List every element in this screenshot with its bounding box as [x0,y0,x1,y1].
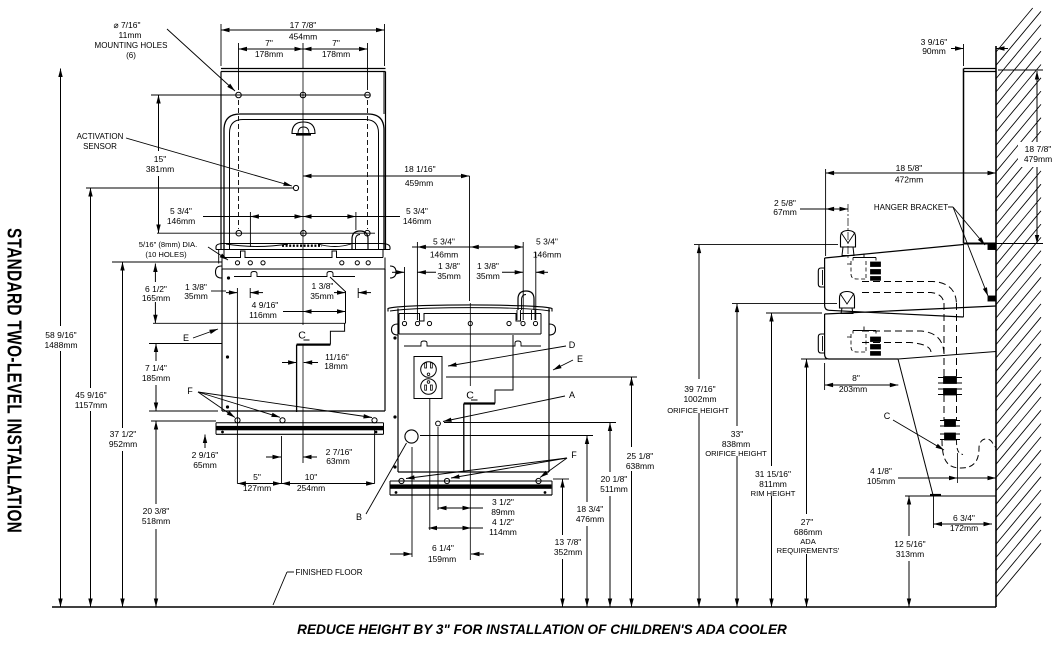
outlet receptacle bottom [421,379,437,395]
svg-text:127mm: 127mm [243,483,271,493]
deck scallop left [226,244,288,247]
dim 33 [736,304,738,426]
svg-text:476mm: 476mm [576,514,604,524]
wall hatching [996,8,1041,597]
svg-text:518mm: 518mm [142,516,170,526]
svg-text:89mm: 89mm [491,507,515,517]
svg-text:63mm: 63mm [326,456,350,466]
svg-text:33": 33" [731,429,743,439]
unit1 centerline [302,72,304,325]
ext 37 1/2 [112,261,222,263]
side panel top double line [964,68,997,70]
dim 20 1/8 [609,423,611,473]
wall line [995,46,997,607]
dim 18 1/16 [303,175,470,177]
svg-text:F: F [187,386,193,396]
svg-text:178mm: 178mm [255,49,283,59]
unit1 base plate [216,422,384,424]
svg-text:2 9/16": 2 9/16" [192,450,219,460]
svg-text:146mm: 146mm [533,250,561,260]
dim 18 7/8 [1018,142,1058,167]
dim 58 9/16 [60,69,62,327]
svg-text:254mm: 254mm [297,483,325,493]
unit1 internal step panel line [153,322,346,324]
side panel bottom [964,243,997,245]
dim 7 left [239,48,304,50]
svg-text:3 1/2": 3 1/2" [492,497,514,507]
pipe union fitting 1 [938,377,962,379]
unit1 back panel top edge (double line) [221,68,386,70]
dim 5 3/4 right [303,216,356,218]
svg-text:REQUIREMENTS': REQUIREMENTS' [777,546,840,555]
svg-text:1 3/8": 1 3/8" [477,261,499,271]
mounting holes row2 line [157,232,375,234]
side panel front edge [963,69,965,244]
svg-text:5/16" (8mm) DIA.: 5/16" (8mm) DIA. [139,240,197,249]
unit1 internal step [330,291,345,345]
svg-text:ACTIVATION: ACTIVATION [77,132,124,141]
lower bubbler side [840,292,855,309]
dim 27 [806,359,808,514]
svg-text:10": 10" [305,472,317,482]
dim 20 3/8 [155,421,157,504]
unit1 apron holes [235,261,239,265]
dashed stud line right [367,100,369,229]
lower cooler underside to wall [898,352,996,360]
unit2 left side knob [392,324,399,335]
unit1 louver line with hooks [234,272,355,277]
dim 5 [237,483,281,485]
svg-text:A: A [569,390,575,400]
finished floor line [52,606,996,608]
dim 7 right [303,48,368,50]
svg-text:5 3/4": 5 3/4" [536,237,558,247]
dim 17 7/8 [221,29,385,31]
dim 6 1/4 [390,553,412,555]
mounting hole 6 [365,230,371,236]
upper cooler top edge [825,245,964,259]
svg-text:6 1/4": 6 1/4" [432,543,454,553]
svg-text:511mm: 511mm [600,484,628,494]
dim 13 7/8 [562,479,564,535]
unit2 bubbler guard dome [518,291,534,310]
svg-text:18 5/8": 18 5/8" [896,163,923,173]
unit2 centerline [469,303,471,386]
svg-text:39 7/16": 39 7/16" [684,384,715,394]
dim 2 7/16 [266,456,281,458]
dim 1 3/8 left unit1 [226,292,237,294]
svg-text:4 9/16": 4 9/16" [252,300,279,310]
upper bubbler centerline [847,204,849,258]
dim 2 5/8 [800,208,826,210]
unit2 basin deck [388,305,552,312]
dim 3 9/16 [951,48,964,50]
dim 37 1/2 [122,262,124,428]
lower cooler front face [825,314,829,359]
svg-text:5 3/4": 5 3/4" [406,206,428,216]
svg-text:D: D [569,340,576,350]
svg-text:27": 27" [801,517,813,527]
svg-text:146mm: 146mm [430,250,458,260]
svg-text:5 3/4": 5 3/4" [170,206,192,216]
svg-text:20 1/8": 20 1/8" [601,474,628,484]
svg-text:MOUNTING HOLES: MOUNTING HOLES [95,41,168,50]
dim 5 3/4 left [203,216,250,218]
diagonal reference line [898,359,933,495]
svg-text:45 9/16": 45 9/16" [75,390,106,400]
svg-text:35mm: 35mm [476,271,500,281]
dim 25 1/8 [631,377,633,447]
svg-text:203mm: 203mm [839,384,867,394]
dim 5 3/4 unit2 left [412,246,417,248]
dim 39 7/16 [698,245,700,379]
P-trap dashed [942,439,996,468]
dashed stud line left [238,100,240,229]
svg-text:37 1/2": 37 1/2" [110,429,137,439]
unit2 louver line with hooks [404,341,541,346]
svg-text:65mm: 65mm [193,460,217,470]
svg-text:⌀ 7/16": ⌀ 7/16" [113,20,140,30]
unit2 guard legs [517,310,535,320]
trap centerline ext [957,453,959,483]
dim 10 [282,483,375,485]
dim 4 9/16 [283,311,303,313]
svg-text:1157mm: 1157mm [75,400,107,410]
pipe union fitting 2 [940,420,960,422]
svg-text:459mm: 459mm [405,178,433,188]
unit2 base plate [390,480,552,482]
svg-text:E: E [183,333,189,343]
svg-text:952mm: 952mm [109,439,137,449]
svg-text:RIM HEIGHT: RIM HEIGHT [751,489,796,498]
drain hole B [405,430,418,443]
electrical outlet box [414,357,442,399]
svg-text:17 7/8": 17 7/8" [290,20,317,30]
sensor extension line [86,187,293,189]
dim 12 5/16 [908,496,910,536]
svg-text:STANDARD TWO-LEVEL INSTALLATIO: STANDARD TWO-LEVEL INSTALLATION [3,228,25,533]
mounting hole 2 [300,92,306,98]
deck grill strip [282,244,322,246]
dim 8 [825,384,899,386]
svg-text:(10 HOLES): (10 HOLES) [145,250,187,259]
unit1 back panel sides [220,72,222,250]
svg-text:12 5/16": 12 5/16" [894,539,925,549]
unit1 right side knob [390,266,396,278]
hole A [436,421,441,426]
dim 1 3/8 mid unit1 [334,292,346,294]
dim 18 5/8 [826,172,996,174]
svg-text:58 9/16": 58 9/16" [45,330,76,340]
svg-text:ORIFICE HEIGHT: ORIFICE HEIGHT [705,449,767,458]
svg-text:6 3/4": 6 3/4" [953,513,975,523]
svg-text:172mm: 172mm [950,523,978,533]
lower cooler internals [853,327,876,334]
mounting hole 4 [236,230,242,236]
dim 6 3/4 [934,523,993,525]
svg-text:7 1/4": 7 1/4" [145,363,167,373]
unit1 bubbler guard dome [352,231,368,250]
svg-text:116mm: 116mm [249,310,277,320]
svg-text:C: C [884,411,891,421]
unit1 apron band2 [221,258,223,270]
svg-text:381mm: 381mm [146,164,174,174]
svg-text:HANGER BRACKET: HANGER BRACKET [874,203,948,212]
svg-text:67mm: 67mm [773,207,797,217]
svg-text:35mm: 35mm [184,291,208,301]
svg-text:454mm: 454mm [289,32,317,42]
svg-text:35mm: 35mm [437,271,461,281]
upper supply pipes dashed [862,282,957,306]
svg-text:7": 7" [265,38,273,48]
svg-text:ADA: ADA [800,537,817,546]
svg-text:F: F [571,450,577,460]
unit2 apron holes [402,321,406,325]
vertical pipe run dashed [956,303,958,376]
lower cooler top edge [825,306,996,314]
svg-text:90mm: 90mm [922,46,946,56]
svg-text:686mm: 686mm [794,527,822,537]
unit2 internal step [495,335,513,404]
mounting holes row1 line [151,94,370,96]
dim 1 3/8 unit2 right [502,271,523,273]
svg-text:11mm: 11mm [119,30,142,40]
svg-text:FINISHED FLOOR: FINISHED FLOOR [295,568,362,577]
lower supply pipes dashed [862,331,944,355]
unit1 rivet dots [227,277,229,279]
unit2 cabinet sides [397,309,399,473]
activation sensor leader [126,138,292,186]
hanger bracket lower detail [988,296,996,301]
svg-text:838mm: 838mm [722,439,750,449]
unit2 rivet dots [394,337,396,339]
outlet receptacle top [421,362,437,378]
dim 31 15/16 [771,313,773,466]
svg-text:B: B [356,512,362,522]
svg-text:105mm: 105mm [867,476,895,486]
lower cooler bottom edge [829,358,898,360]
svg-text:146mm: 146mm [403,216,431,226]
unit1 left side knob [216,266,222,278]
mounting holes leader [167,29,235,91]
mounting hole 1 [236,92,242,98]
svg-text:ORIFICE HEIGHT: ORIFICE HEIGHT [667,406,729,415]
svg-text:4 1/8": 4 1/8" [870,466,892,476]
svg-text:165mm: 165mm [142,293,170,303]
svg-text:8": 8" [852,373,860,383]
svg-text:811mm: 811mm [759,479,787,489]
upper bubbler side [841,231,856,248]
mounting hole 3 [365,92,371,98]
svg-text:20 3/8": 20 3/8" [143,506,170,516]
svg-text:E: E [577,354,583,364]
dim 4 1/2 [429,527,472,529]
svg-text:159mm: 159mm [428,554,456,564]
unit2 feet bolts [399,478,404,483]
svg-text:178mm: 178mm [322,49,350,59]
svg-text:18 1/16": 18 1/16" [404,164,435,174]
unit1 hood inner frame [230,120,379,250]
svg-text:18mm: 18mm [324,361,348,371]
dim 4 1/8 [898,477,996,479]
svg-text:18 3/4": 18 3/4" [577,504,604,514]
mounting hole 5 [301,230,307,236]
deck scallop right [318,244,351,247]
svg-text:(6): (6) [126,51,136,60]
unit1 basin deck [216,244,390,250]
dim 7 1/4 [155,344,157,362]
svg-text:5 3/4": 5 3/4" [433,237,455,247]
svg-text:25 1/8": 25 1/8" [627,451,654,461]
unit2 right side knob [549,324,556,335]
dim 3 1/2 [438,507,471,509]
dim 15 [158,95,160,151]
svg-text:479mm: 479mm [1024,154,1052,164]
unit1 bottom rail [222,410,385,412]
svg-text:1002mm: 1002mm [683,394,716,404]
dim 2 9/16 [204,435,206,449]
upper cooler internals [853,254,876,261]
dim 18 3/4 [586,436,588,503]
unit2 bottom rail [398,471,549,473]
dim 45 9/16 [90,188,92,388]
dim 6 1/2 [154,264,156,283]
upper cooler bottom edge [829,310,964,317]
svg-text:7": 7" [332,38,340,48]
lower cooler push button [818,334,824,353]
svg-text:313mm: 313mm [896,549,924,559]
svg-text:114mm: 114mm [489,527,517,537]
svg-text:638mm: 638mm [626,461,654,471]
svg-text:4 1/2": 4 1/2" [492,517,514,527]
dim 11/16 [282,362,297,364]
svg-text:31 15/16": 31 15/16" [755,469,791,479]
unit1 bubbler front [292,122,315,134]
svg-text:185mm: 185mm [142,373,170,383]
svg-text:13 7/8": 13 7/8" [555,537,582,547]
svg-text:35mm: 35mm [310,291,334,301]
svg-text:1488mm: 1488mm [44,340,77,350]
svg-text:SENSOR: SENSOR [83,142,117,151]
5/16 leader [208,247,228,260]
svg-text:1 3/8": 1 3/8" [312,281,334,291]
svg-text:15": 15" [154,154,166,164]
unit1 cabinet sides [221,269,223,411]
hanger bracket upper detail [988,245,996,250]
unit1 hood outer frame [224,114,384,250]
svg-text:352mm: 352mm [554,547,582,557]
svg-text:472mm: 472mm [895,175,923,185]
unit2 apron with notches [399,314,541,335]
svg-text:REDUCE HEIGHT BY 3" FOR INSTAL: REDUCE HEIGHT BY 3" FOR INSTALLATION OF … [297,622,787,637]
pipe run below union [956,395,958,420]
activation sensor dot [293,185,298,190]
dim 1 3/8 unit2 left [392,271,405,273]
upper cooler push button [818,268,824,287]
svg-text:1 3/8": 1 3/8" [438,261,460,271]
svg-text:18 7/8": 18 7/8" [1025,144,1052,154]
shelf reference line [905,495,996,497]
unit1 feet bolts [235,418,240,423]
unit1 apron band1 with notches [224,250,383,258]
svg-text:146mm: 146mm [167,216,195,226]
upper cooler front face [825,258,829,310]
svg-text:5": 5" [253,472,261,482]
